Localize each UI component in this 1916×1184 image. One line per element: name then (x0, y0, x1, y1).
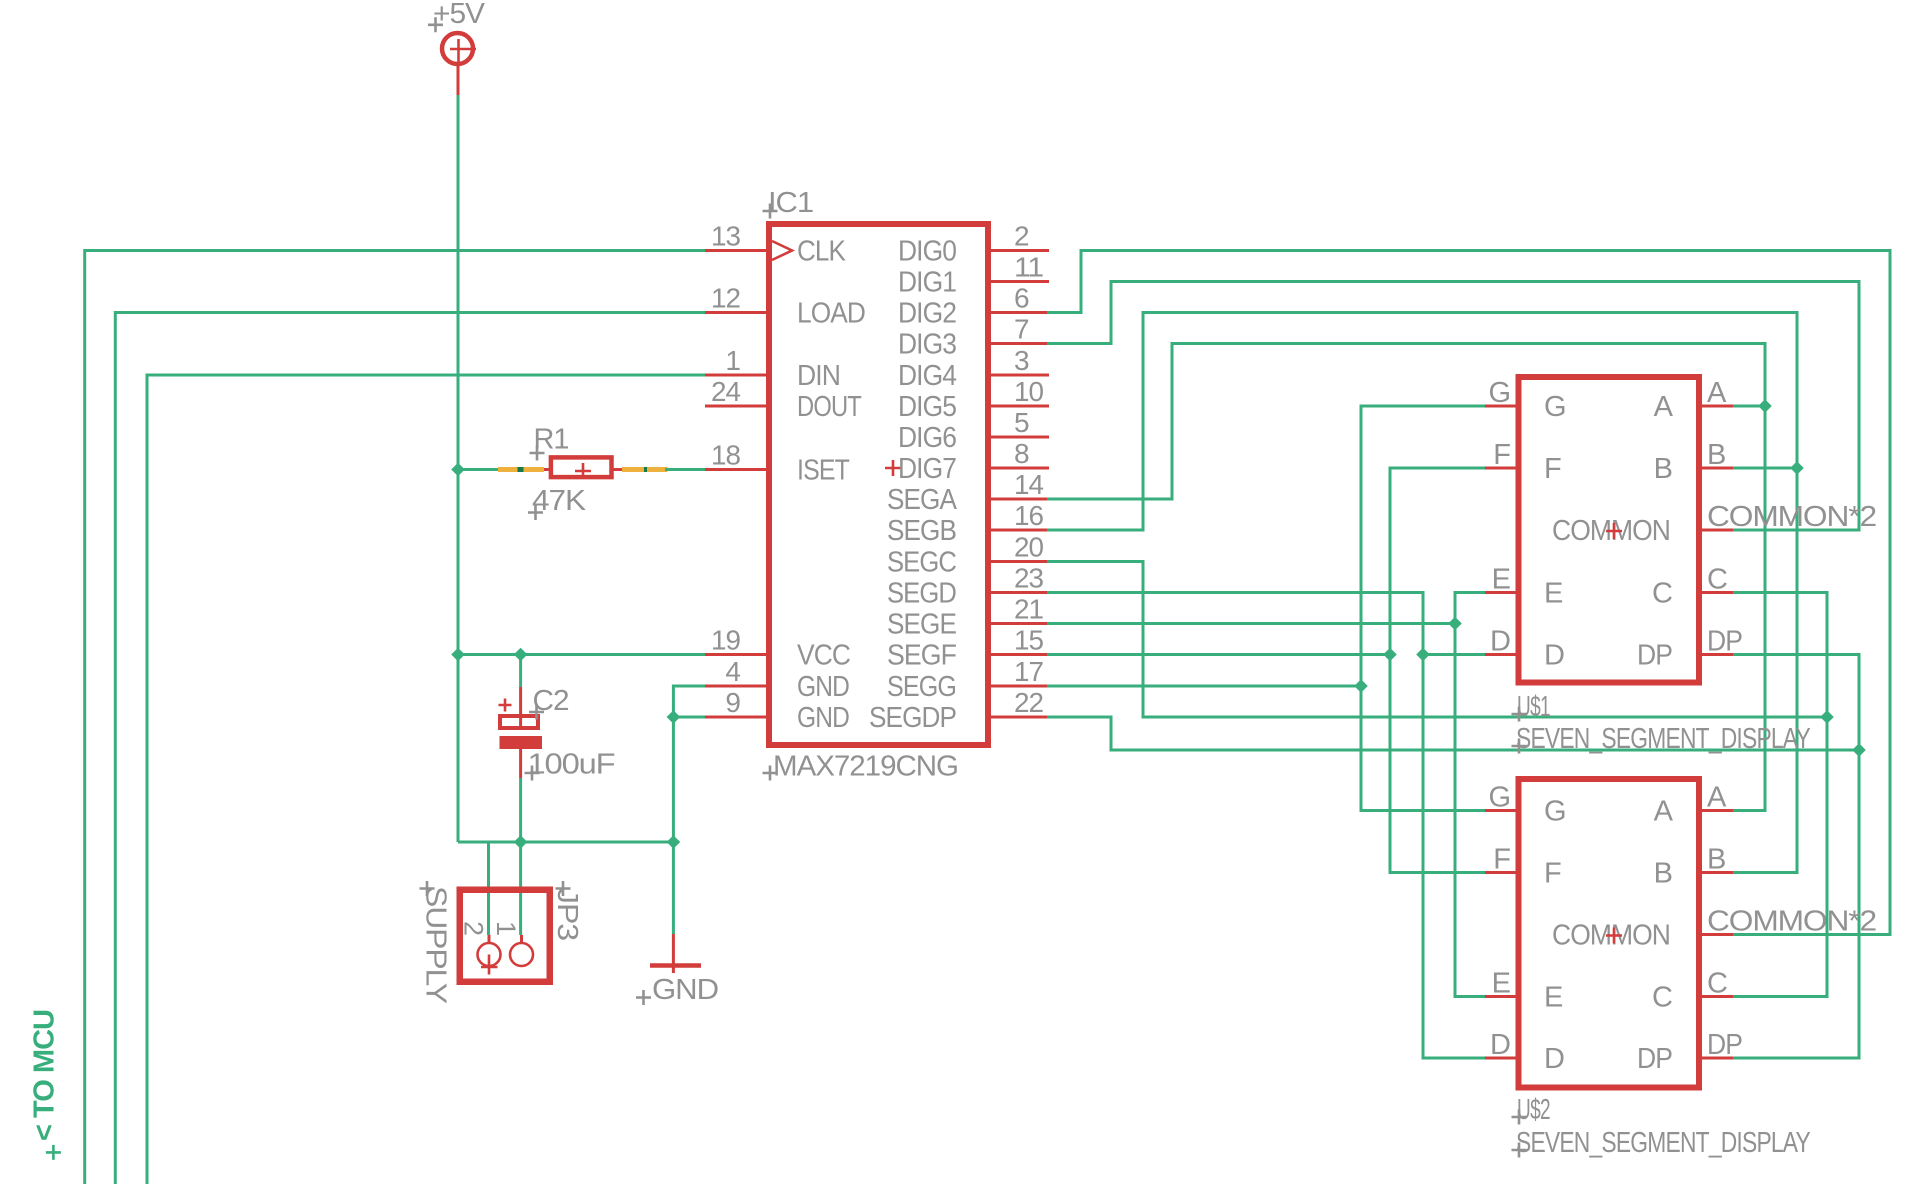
svg-text:DIG5: DIG5 (898, 391, 956, 423)
svg-text:C: C (1707, 968, 1727, 1000)
pin stub VCC (pin 19) left of IC1 (705, 653, 766, 656)
svg-text:G: G (1544, 391, 1566, 423)
origin cross of MAX7219CNG label (763, 766, 778, 781)
pin stub SEGE (pin 21) right of IC1 (991, 622, 1049, 625)
node junction VCC/C2 top (514, 648, 528, 662)
ground symbol GND (650, 934, 701, 973)
wire R1 right lead to ISET (665, 468, 705, 471)
wire DP column U$1 to U$2 (1733, 655, 1859, 1059)
svg-text:GND: GND (652, 974, 718, 1006)
svg-text:D: D (1544, 640, 1564, 672)
svg-text:MAX7219CNG: MAX7219CNG (773, 751, 958, 783)
origin cross of SEVEN_SEGMENT_DISPLAY label (1512, 739, 1527, 754)
svg-text:100uF: 100uF (528, 749, 615, 781)
U$2 pin stub F (left) (1485, 871, 1516, 874)
svg-text:DIG0: DIG0 (898, 236, 956, 268)
highlight yellow on R1 right lead (622, 467, 644, 472)
highlight yellow on R1 left lead (498, 467, 518, 472)
svg-text:ISET: ISET (797, 455, 850, 487)
svg-text:GND: GND (797, 671, 849, 703)
pin stub ISET (pin 18) left of IC1 (705, 468, 766, 471)
pin stub DIG0 (pin 2) right of IC1 (991, 249, 1049, 252)
svg-text:1: 1 (491, 921, 521, 935)
node junction GND pins (667, 710, 681, 724)
svg-text:DIG4: DIG4 (898, 360, 957, 392)
wire SEGB net riser (1047, 313, 1797, 873)
svg-text:C: C (1652, 982, 1672, 1014)
origin cross of 100uF label (525, 766, 540, 781)
node junction +5V/ISET at R1 left (451, 463, 465, 477)
origin cross of R1 (red) (575, 463, 591, 479)
wire GND pin4 of IC1 to down corner (673, 686, 705, 717)
pin stub SEGDP (pin 22) right of IC1 (991, 716, 1049, 719)
pin stub CLK (pin 13) left of IC1 (705, 249, 766, 252)
svg-text:SEGE: SEGE (887, 609, 957, 641)
overlap mark on R1 right lead (644, 467, 647, 472)
U$1 pin stub G (left) (1485, 405, 1516, 408)
wire DIG2 net to U$2 COMMON (1047, 251, 1890, 935)
origin cross of JP3 label (556, 881, 571, 896)
svg-text:F: F (1544, 858, 1561, 890)
origin cross of IC1 label (763, 204, 778, 219)
svg-text:LOAD: LOAD (797, 298, 865, 330)
wire LOAD net from MCU to IC1 LOAD (115, 313, 705, 1184)
node junction GND rail / bottom rail (667, 835, 681, 849)
wire F column U$1 to U$2 (1390, 468, 1485, 873)
pin stub GND (pin 4) left of IC1 (705, 685, 766, 688)
JP3 pin 2 stub (red) (488, 935, 491, 943)
U$2 pin stub E (left) (1485, 995, 1516, 998)
svg-text:DP: DP (1707, 626, 1742, 658)
svg-text:G: G (1544, 796, 1566, 828)
capacitor C2 top plate (hollow) (500, 716, 538, 728)
svg-text:SEVEN_SEGMENT_DISPLAY: SEVEN_SEGMENT_DISPLAY (1516, 723, 1811, 755)
U$2 pin stub G (left) (1485, 809, 1516, 812)
pin stub DOUT (pin 24) left of IC1 (705, 405, 766, 408)
red lead into R1 body left (544, 468, 551, 471)
origin cross of SEVEN_SEGMENT_DISPLAY label (1512, 1143, 1527, 1158)
wire JP3 pin1 drop (519, 842, 522, 935)
origin cross of GND label (636, 990, 651, 1005)
svg-text:2: 2 (459, 921, 489, 935)
U$1 pin stub E (left) (1485, 591, 1516, 594)
origin cross of U$2 label (1512, 1110, 1527, 1125)
svg-text:B: B (1654, 453, 1672, 485)
U$1 pin stub COM (right) (1702, 529, 1733, 532)
wire SEGDP net (1047, 717, 1859, 750)
svg-text:2: 2 (1014, 221, 1029, 252)
svg-text:< TO MCU: < TO MCU (29, 1010, 61, 1141)
svg-text:DIG2: DIG2 (898, 298, 956, 330)
U$1 pin stub D (left) (1485, 653, 1516, 656)
svg-text:18: 18 (711, 440, 740, 471)
origin cross of U$1 label (1512, 707, 1527, 722)
svg-text:B: B (1707, 844, 1725, 876)
svg-text:SEGC: SEGC (887, 547, 956, 579)
U$2 pin stub COM (right) (1702, 933, 1733, 936)
svg-text:19: 19 (711, 625, 740, 656)
svg-text:13: 13 (711, 221, 740, 252)
pin stub DIG6 (pin 5) right of IC1 (991, 436, 1049, 439)
origin cross of 47K label (528, 505, 543, 520)
wire SEGD net to D column (1047, 593, 1485, 1059)
svg-text:D: D (1490, 626, 1510, 658)
U$2 origin cross (red) (1606, 928, 1622, 944)
pin stub SEGG (pin 17) right of IC1 (991, 685, 1049, 688)
wire SEGE net (1047, 622, 1455, 625)
wire U$1 A pin to net A (1733, 405, 1765, 408)
U$1 pin stub A (right) (1702, 405, 1733, 408)
origin cross of C2 label (529, 705, 544, 720)
clock chevron on CLK pin (772, 241, 792, 260)
wire C2 bottom lead (green) (519, 778, 522, 842)
svg-text:15: 15 (1014, 625, 1043, 656)
svg-text:SEVEN_SEGMENT_DISPLAY: SEVEN_SEGMENT_DISPLAY (1516, 1127, 1811, 1159)
pin stub DIG4 (pin 3) right of IC1 (991, 374, 1049, 377)
svg-text:G: G (1488, 377, 1510, 409)
wire SEGG net (1047, 685, 1361, 688)
seven-segment display U$2 body (1519, 779, 1700, 1088)
U$1 origin cross (red) (1606, 523, 1622, 539)
svg-text:E: E (1544, 578, 1563, 610)
node junction F (1383, 648, 1397, 662)
svg-text:3: 3 (1014, 345, 1029, 376)
svg-text:23: 23 (1014, 563, 1043, 594)
svg-text:9: 9 (725, 687, 740, 718)
svg-text:A: A (1654, 796, 1674, 828)
svg-text:5: 5 (1014, 407, 1029, 438)
svg-text:7: 7 (1014, 314, 1029, 345)
U$1 pin stub C (right) (1702, 591, 1733, 594)
pin stub LOAD (pin 12) left of IC1 (705, 311, 766, 314)
svg-text:SEGD: SEGD (887, 578, 956, 610)
svg-text:DIG6: DIG6 (898, 422, 956, 454)
svg-text:4: 4 (725, 656, 740, 687)
svg-text:A: A (1707, 377, 1727, 409)
svg-text:VCC: VCC (797, 640, 850, 672)
U$1 pin stub B (right) (1702, 467, 1733, 470)
svg-text:6: 6 (1014, 283, 1029, 314)
pin stub DIN (pin 1) left of IC1 (705, 374, 766, 377)
wire CLK net from MCU (bottom-left) to IC1 CLK (85, 251, 705, 1184)
svg-text:GND: GND (797, 702, 849, 734)
svg-text:A: A (1654, 391, 1674, 423)
wire +5V rail vertical down to supply corner (457, 95, 460, 842)
svg-text:E: E (1544, 982, 1563, 1014)
capacitor C2 bottom plate (filled) (500, 736, 543, 749)
svg-text:E: E (1492, 564, 1511, 596)
svg-text:11: 11 (1014, 252, 1043, 283)
svg-text:DP: DP (1707, 1029, 1742, 1061)
svg-text:COMMON*2: COMMON*2 (1707, 501, 1876, 533)
svg-text:DP: DP (1637, 1043, 1672, 1075)
wire SEGA net riser (1047, 344, 1765, 811)
svg-text:JP3: JP3 (551, 888, 583, 940)
capacitor C2 plus sign (499, 699, 512, 712)
svg-text:DIN: DIN (797, 360, 840, 392)
node junction A at U$1 (1758, 399, 1772, 413)
svg-text:DIG7: DIG7 (898, 453, 956, 485)
svg-text:10: 10 (1014, 376, 1043, 407)
svg-text:SUPPLY: SUPPLY (420, 886, 452, 1004)
svg-text:COMMON*2: COMMON*2 (1707, 906, 1876, 938)
node junction +5V/VCC (451, 648, 465, 662)
wire GND symbol lead (672, 842, 675, 934)
svg-text:CLK: CLK (797, 236, 846, 268)
svg-text:20: 20 (1014, 532, 1043, 563)
wire SEGC net (1047, 562, 1827, 718)
pin stub DIG7 (pin 8) right of IC1 (991, 467, 1049, 470)
svg-text:G: G (1488, 782, 1510, 814)
node junction C2 bottom / bottom rail (514, 835, 528, 849)
wire bottom supply rail (489, 841, 674, 844)
svg-text:B: B (1707, 439, 1725, 471)
origin cross of SUPPLY label (420, 881, 435, 896)
svg-text:D: D (1544, 1043, 1564, 1075)
wire DIG3 net to U$1 COMMON (1047, 282, 1859, 531)
pin stub DIG3 (pin 7) right of IC1 (991, 342, 1049, 345)
op IC1 MAX7219CNG body (769, 224, 988, 745)
wire R1 left lead (458, 468, 549, 471)
svg-text:16: 16 (1014, 500, 1043, 531)
U$1 pin stub DP (right) (1702, 653, 1733, 656)
svg-text:DIG1: DIG1 (898, 267, 956, 299)
wire +5V pin stub (red) (457, 64, 460, 95)
pin stub GND (pin 9) left of IC1 (705, 716, 766, 719)
red lead C2 bottom (519, 749, 522, 778)
svg-text:F: F (1493, 439, 1510, 471)
svg-text:DIG3: DIG3 (898, 329, 956, 361)
connector JP3 body (460, 890, 550, 982)
pin stub SEGA (pin 14) right of IC1 (991, 498, 1049, 501)
svg-text:SEGF: SEGF (887, 640, 956, 672)
svg-text:12: 12 (711, 283, 740, 314)
node junction B at U$1 (1790, 461, 1804, 475)
pin stub DIG1 (pin 11) right of IC1 (991, 280, 1049, 283)
resistor R1 body (551, 457, 612, 477)
svg-text:SEGG: SEGG (887, 671, 956, 703)
node junction DP (1852, 743, 1866, 757)
wire G column U$1 to U$2 (1361, 406, 1485, 811)
svg-text:IC1: IC1 (768, 187, 813, 219)
svg-text:24: 24 (711, 376, 740, 407)
pin stub SEGD (pin 23) right of IC1 (991, 591, 1049, 594)
wire +5V rail corner to JP3 pin 2 (458, 842, 489, 935)
svg-text:SEGA: SEGA (887, 484, 957, 516)
origin cross of +5V (428, 17, 443, 32)
power symbol +5V (442, 33, 476, 64)
origin cross of R1 label (530, 446, 545, 461)
pin stub SEGF (pin 15) right of IC1 (991, 653, 1049, 656)
svg-text:R1: R1 (534, 424, 569, 456)
wire C2 top lead (green) (519, 655, 522, 688)
node junction C (1820, 710, 1834, 724)
U$2 pin stub DP (right) (1702, 1057, 1733, 1060)
wire DIN net from MCU to IC1 DIN (147, 375, 705, 1184)
overlap mark on R1 left lead (518, 467, 524, 472)
wire U$1 D pin to net D (1423, 653, 1485, 656)
svg-text:SEGDP: SEGDP (869, 702, 956, 734)
U$2 pin stub B (right) (1702, 871, 1733, 874)
svg-text:C: C (1652, 578, 1672, 610)
svg-text:SEGB: SEGB (887, 515, 956, 547)
origin cross of IC1 part (red) (885, 460, 901, 476)
svg-text:U$1: U$1 (1517, 691, 1550, 723)
wire SEGF net (1047, 653, 1390, 656)
pin stub SEGC (pin 20) right of IC1 (991, 560, 1049, 563)
U$2 pin stub D (left) (1485, 1057, 1516, 1060)
svg-text:F: F (1544, 453, 1561, 485)
svg-text:B: B (1654, 858, 1672, 890)
wire C column U$1 to U$2 (1733, 593, 1827, 997)
pin stub DIG5 (pin 10) right of IC1 (991, 405, 1049, 408)
JP3 pin 2 circle (478, 943, 501, 966)
seven-segment display U$1 body (1519, 377, 1700, 683)
svg-text:DP: DP (1637, 640, 1672, 672)
U$2 pin stub C (right) (1702, 995, 1733, 998)
U$1 pin stub F (left) (1485, 467, 1516, 470)
svg-text:DOUT: DOUT (797, 391, 862, 423)
wire E column U$1 to U$2 (1455, 593, 1485, 997)
node junction E (1448, 617, 1462, 631)
wire GND pin9 of IC1 (673, 716, 705, 719)
svg-text:8: 8 (1014, 438, 1029, 469)
node junction G (1354, 679, 1368, 693)
svg-text:A: A (1707, 782, 1727, 814)
wire U$1 B pin to net B (1733, 467, 1797, 470)
node junction D at U$1 (1416, 648, 1430, 662)
wire VCC rail to IC1 VCC pin (458, 653, 705, 656)
svg-text:F: F (1493, 844, 1510, 876)
svg-text:14: 14 (1014, 469, 1043, 500)
wire GND rail down (672, 717, 675, 842)
JP3 pin 1 circle (510, 943, 533, 966)
pin stub SEGB (pin 16) right of IC1 (991, 529, 1049, 532)
svg-text:17: 17 (1014, 656, 1043, 687)
svg-text:22: 22 (1014, 687, 1043, 718)
svg-text:E: E (1492, 968, 1511, 1000)
U$2 pin stub A (right) (1702, 809, 1733, 812)
JP3 pin 2 origin cross (481, 955, 498, 975)
red lead out of R1 body right (613, 468, 623, 471)
pin stub DIG2 (pin 6) right of IC1 (991, 311, 1049, 314)
svg-text:U$2: U$2 (1517, 1094, 1550, 1126)
svg-text:C: C (1707, 564, 1727, 596)
origin cross of TO MCU label (46, 1145, 61, 1160)
JP3 pin 1 stub (red) (520, 935, 523, 943)
svg-text:D: D (1490, 1029, 1510, 1061)
svg-text:21: 21 (1014, 594, 1043, 625)
svg-text:1: 1 (725, 345, 740, 376)
red lead C2 top (519, 687, 522, 726)
